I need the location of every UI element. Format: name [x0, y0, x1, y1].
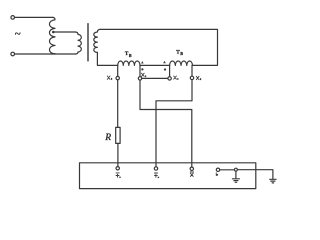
transformer secondary winding	[94, 29, 118, 65]
box terminal 4 label	[216, 173, 218, 176]
polarity arrow left	[141, 61, 144, 64]
wire ground node to external ground	[237, 170, 273, 179]
svg-text:R: R	[104, 133, 111, 143]
internal ground symbol	[232, 171, 239, 182]
wire resistor to box terminal 1	[117, 143, 119, 166]
polarity dot right	[164, 68, 166, 70]
box terminal 3	[190, 167, 193, 170]
saturable reactor winding TB2	[170, 61, 193, 65]
wire bottom rail	[15, 53, 76, 55]
terminal X2 right	[190, 76, 193, 79]
wire drop to X1 left	[139, 65, 141, 76]
box terminal 1	[116, 167, 119, 170]
polarity dot left	[141, 68, 143, 70]
saturable reactor winding TB1	[118, 61, 140, 65]
svg-text:~: ~	[15, 28, 21, 40]
label X2 right	[196, 76, 199, 79]
wire X1 pair down to box terminal 3	[140, 80, 192, 167]
tap wire to transformer primary	[53, 31, 75, 33]
wiper tap dot	[52, 31, 55, 34]
jumper wire between X1 terminals	[142, 77, 168, 79]
wire between reactor windings	[140, 64, 170, 66]
box terminal 2	[154, 167, 157, 170]
polarity arrow right	[163, 61, 166, 64]
svg-text:B: B	[129, 53, 132, 58]
box terminal 1 label	[116, 173, 119, 177]
control box	[80, 163, 256, 189]
wire X2 right down to box terminal 2	[156, 80, 192, 167]
wire drop to X2 right	[191, 65, 193, 76]
wire drop to X1 right	[169, 65, 171, 76]
autotransformer winding (variac coil)	[49, 17, 55, 54]
terminal X1 left	[138, 77, 141, 80]
box terminal 3 label	[190, 172, 193, 176]
ground node circle	[234, 168, 237, 171]
box terminal 2 label	[154, 173, 157, 177]
label X1 left	[142, 73, 145, 76]
terminal X2 left	[116, 76, 119, 79]
label X2 left	[107, 76, 110, 79]
svg-text:B: B	[180, 51, 183, 56]
transformer primary winding	[75, 32, 81, 54]
transformer core	[87, 24, 89, 61]
external ground symbol	[270, 179, 276, 183]
wire drop to X2 left	[117, 65, 119, 76]
wire top from terminal to autotransformer	[15, 16, 53, 18]
top rail wire	[100, 29, 217, 65]
resistor R body	[116, 127, 120, 143]
AC source terminal bottom-left	[11, 52, 15, 56]
AC source terminal top-left	[11, 16, 15, 20]
wire terminal 4 to ground node	[220, 169, 235, 171]
wire X2 left down to resistor	[117, 80, 119, 128]
terminal X1 right	[168, 77, 171, 80]
label X1 right	[174, 76, 177, 79]
box terminal 4	[216, 168, 219, 171]
